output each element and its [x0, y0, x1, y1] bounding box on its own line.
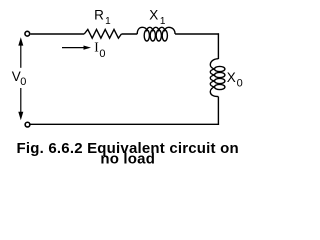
resistor R1	[84, 29, 121, 38]
wire bottom	[30, 123, 219, 125]
svg-text:X: X	[227, 70, 236, 85]
V0 arrow upper shaft with up arrowhead	[20, 43, 22, 68]
wire right vertical upper	[217, 33, 219, 59]
V0 arrow lower shaft with down arrowhead	[20, 88, 22, 115]
I0 current arrow	[62, 47, 86, 49]
svg-text:0: 0	[20, 76, 26, 88]
svg-text:1: 1	[105, 16, 111, 27]
terminal bottom-left	[25, 122, 30, 127]
wire top-right to corner	[175, 33, 219, 35]
wire top from terminal to resistor	[30, 33, 84, 35]
svg-text:X: X	[149, 7, 158, 22]
inductor X1 top arcs	[137, 27, 175, 34]
svg-text:0: 0	[237, 77, 243, 89]
inductor X1 loops	[137, 27, 175, 41]
svg-text:0: 0	[99, 48, 105, 60]
wire right vertical lower	[217, 97, 219, 125]
svg-text:1: 1	[160, 16, 166, 27]
inductor X0 loops (rotated)	[210, 59, 225, 97]
inductor X0 side arcs	[210, 59, 218, 97]
wire between resistor and inductor X1	[121, 33, 137, 35]
svg-text:no load: no load	[100, 150, 155, 167]
terminal top-left	[25, 31, 30, 36]
svg-text:R: R	[94, 7, 104, 22]
